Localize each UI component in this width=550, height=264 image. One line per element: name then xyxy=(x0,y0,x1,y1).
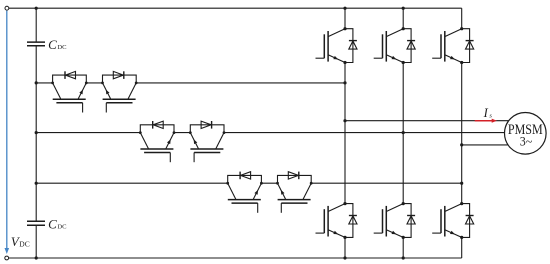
IGBT T2b with antiparallel diode (bidirectional switch phase b, left) xyxy=(139,121,176,162)
junction dot top rail / DC link xyxy=(35,7,38,10)
negative terminal circle xyxy=(5,256,9,260)
junction dot midpoint/pair2 xyxy=(35,131,38,134)
IGBT T1a with antiparallel diode D1a (top leg, phase a) xyxy=(316,27,358,64)
midpoint wire to phase b bidirectional switch / motor phase b wire xyxy=(36,132,140,134)
capacitor CDC (bottom) xyxy=(27,220,45,222)
junction dot phase b output xyxy=(402,131,405,134)
svg-text:I: I xyxy=(483,106,489,120)
IGBT T2a with antiparallel diode (bidirectional switch phase a, left) xyxy=(51,71,88,112)
IGBT T4b with antiparallel diode D4b (bottom leg, phase b) xyxy=(374,202,416,239)
motor phase c wire xyxy=(462,144,508,146)
junction dot pair1/phase a xyxy=(343,81,346,84)
junction dot pair3/phase c xyxy=(460,182,463,185)
collector drop wires from top rail xyxy=(344,8,346,29)
svg-text:DC: DC xyxy=(19,239,29,248)
junction dot midpoint/pair1 xyxy=(35,81,38,84)
svg-text:DC: DC xyxy=(57,224,67,231)
IGBT T4c with antiparallel diode D4c (bottom leg, phase c) xyxy=(432,202,474,239)
emitter wires to bottom rail xyxy=(344,237,346,258)
junction dot top rail / phase b xyxy=(402,7,405,10)
junction dot bottom rail / phase b xyxy=(402,256,405,259)
IGBT T3a with antiparallel diode (bidirectional switch phase a, right) xyxy=(101,71,138,112)
blue VDC voltage arrow xyxy=(6,11,8,249)
midpoint wire to phase a bidirectional switch xyxy=(36,82,52,84)
PMSM motor circle xyxy=(505,113,547,155)
bottom DC- rail xyxy=(8,257,462,259)
IGBT T4a with antiparallel diode D4a (bottom leg, phase a) xyxy=(316,202,358,239)
motor phase a wire xyxy=(345,120,509,122)
IGBT T2c with antiparallel diode (bidirectional switch phase c, left) xyxy=(226,172,262,213)
positive terminal circle xyxy=(5,6,9,10)
junction dot phase a output xyxy=(343,119,346,122)
svg-text:C: C xyxy=(48,216,57,231)
junction dot top rail / phase a xyxy=(343,7,346,10)
IGBT T3b with antiparallel diode (bidirectional switch phase b, right) xyxy=(189,121,226,162)
junction dot bottom rail / DC link xyxy=(35,256,38,259)
capacitor CDC (top) xyxy=(27,41,45,43)
svg-text:3~: 3~ xyxy=(520,134,533,149)
IGBT T1c with antiparallel diode D1c (top leg, phase c) xyxy=(432,27,474,64)
IGBT T3c with antiparallel diode (bidirectional switch phase c, right) xyxy=(276,172,313,213)
DC-link left vertical wire (split by capacitors) xyxy=(35,8,37,42)
IGBT T1b with antiparallel diode D1b (top leg, phase b) xyxy=(374,27,416,64)
junction dot midpoint/pair3 xyxy=(35,182,38,185)
top DC+ rail xyxy=(9,7,462,9)
junction dot bottom rail / phase a xyxy=(343,256,346,259)
red stator current arrow Is xyxy=(475,120,493,122)
midpoint wire to phase c bidirectional switch xyxy=(36,182,228,184)
svg-text:DC: DC xyxy=(57,44,67,51)
phase mid vertical wires xyxy=(344,63,346,204)
svg-text:C: C xyxy=(48,37,57,52)
junction dot phase c output xyxy=(460,143,463,146)
